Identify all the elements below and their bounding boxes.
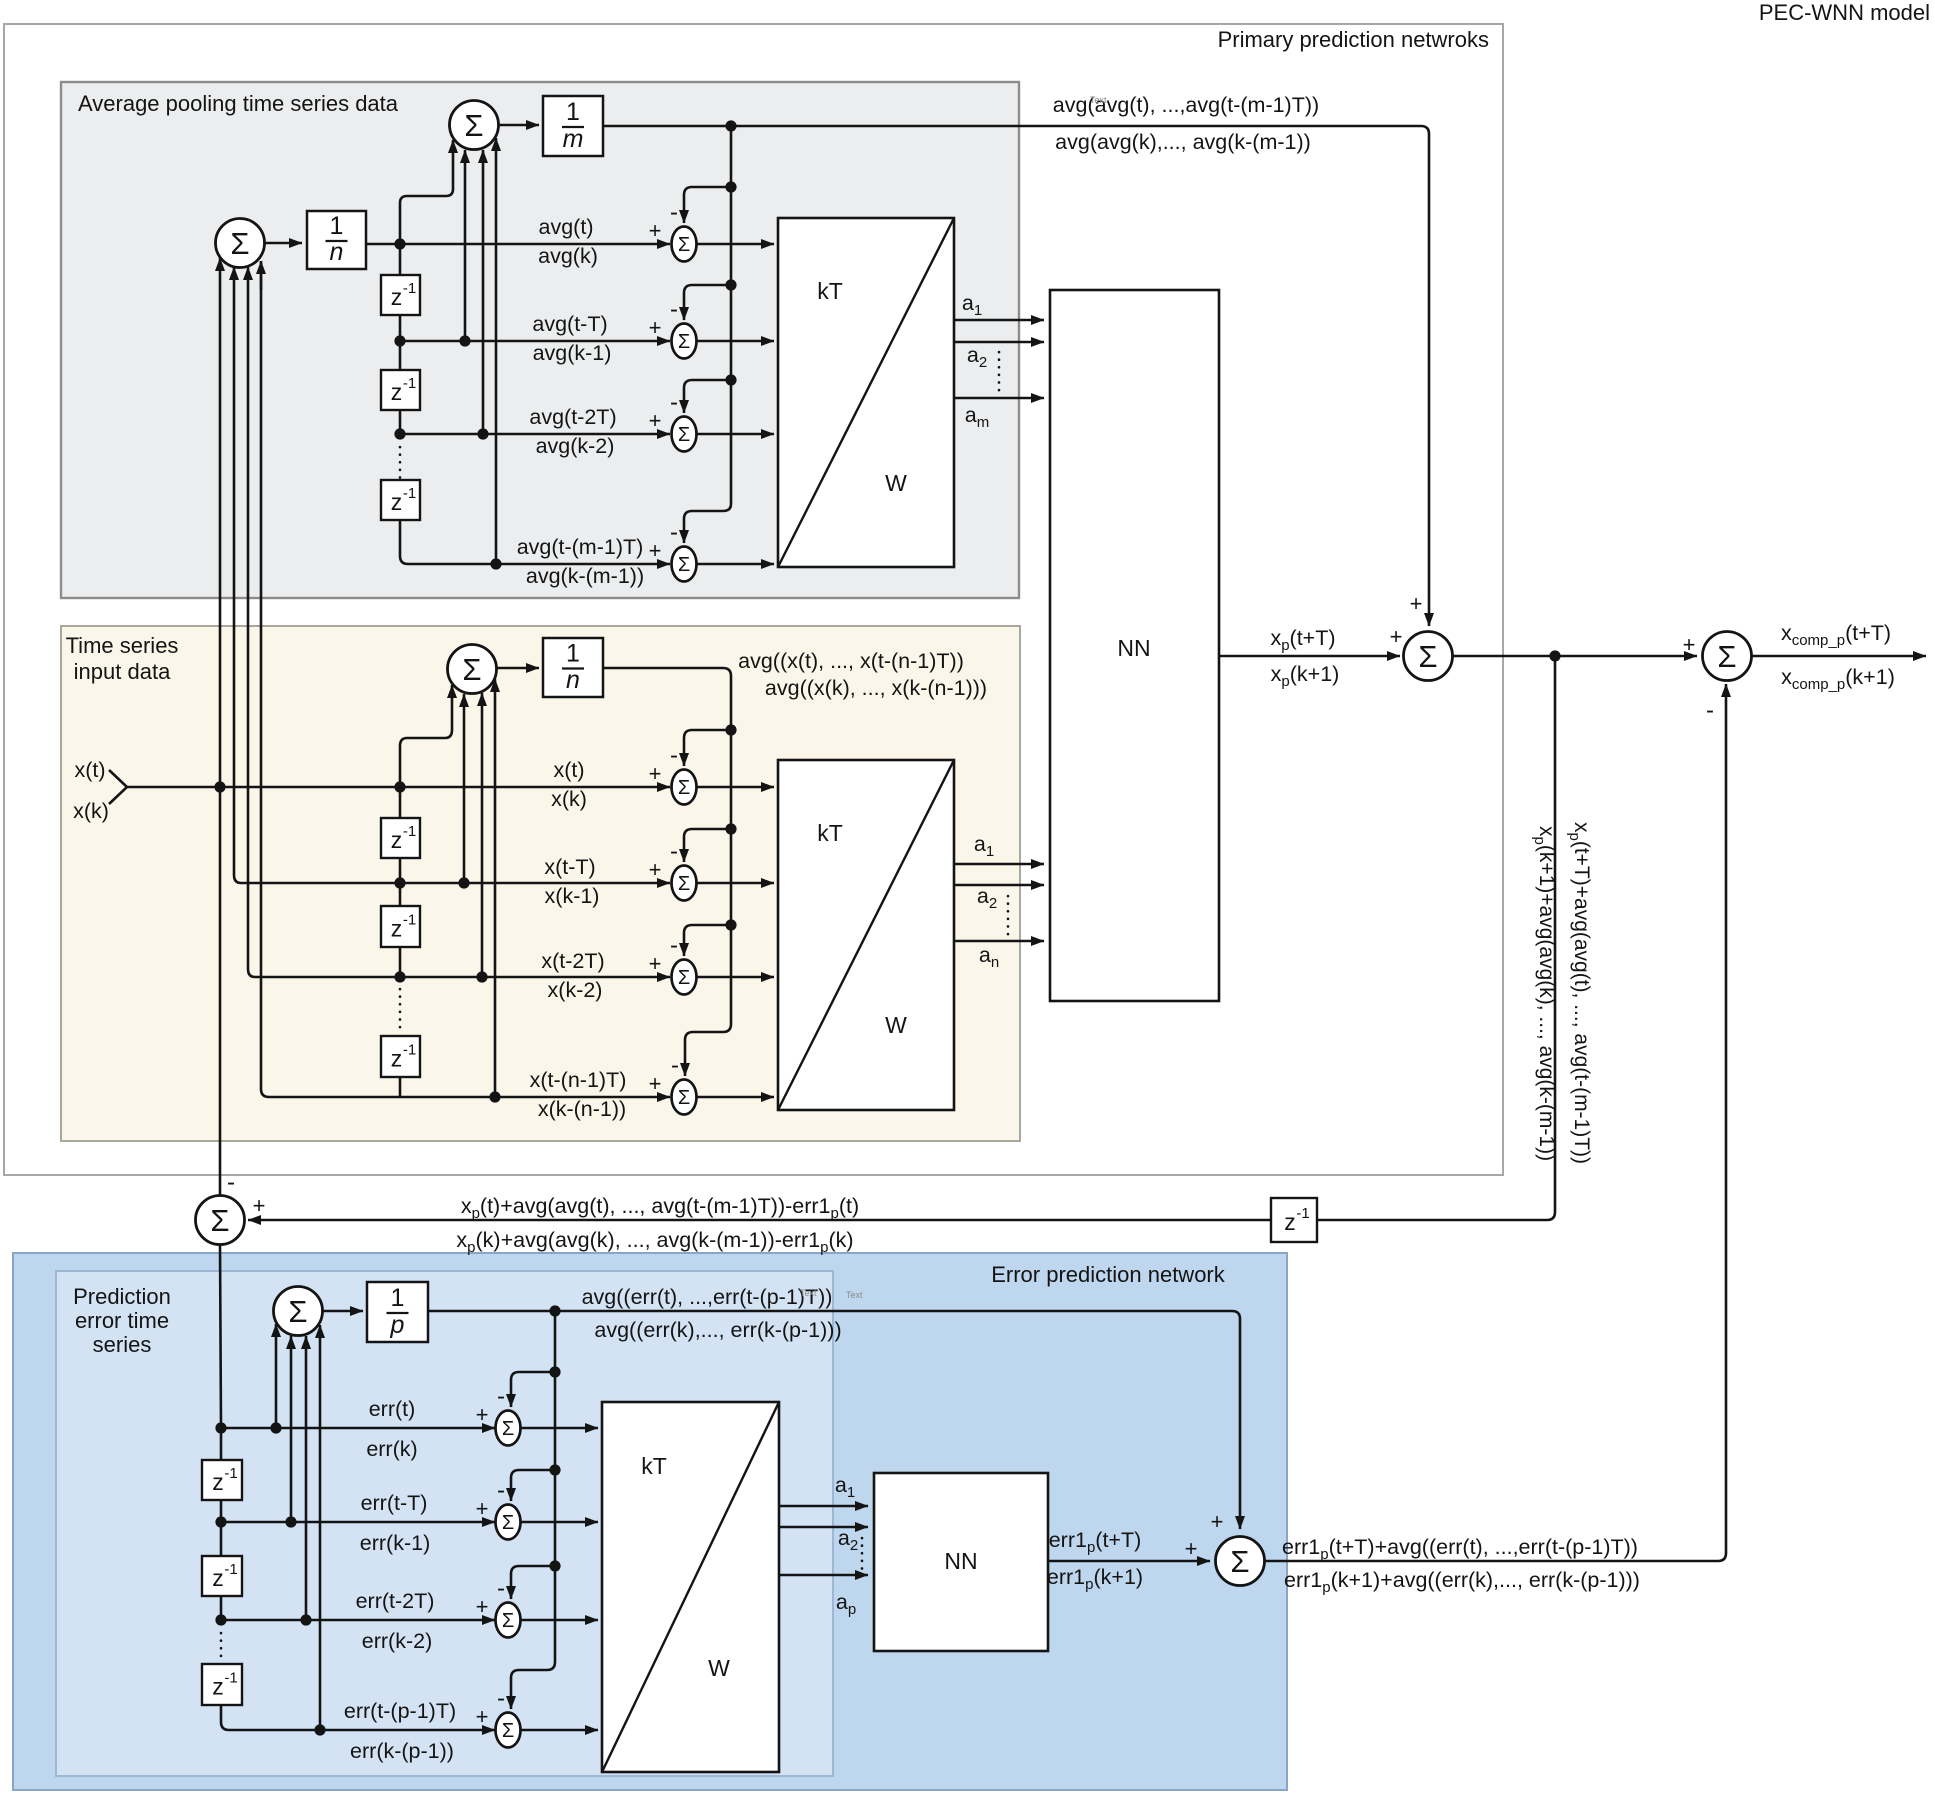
svg-text:avg(k): avg(k) [538,244,598,268]
wire: z-chain E seg1 [220,1428,223,1460]
svg-text:-: - [670,389,678,416]
svg-text:x(t): x(t) [74,758,105,782]
svg-text:-1: -1 [224,1561,237,1578]
label x(k-2) [548,978,603,1002]
label ap (E) [836,1590,856,1618]
junction dot A row2 tap [459,335,470,346]
block 1/n (M) [543,638,603,697]
junction dot on avg(avg) line [725,120,736,131]
sum node SE-big (err summer) [274,1287,323,1336]
label x(t-2T) [541,949,604,973]
plus sign E row4 [476,1704,489,1729]
label xp(t)+avg... [461,1194,859,1222]
wire: subtract-feed vertical A [684,126,731,543]
svg-text:xp(t+T): xp(t+T) [1270,626,1335,654]
svg-text:Average pooling time series da: Average pooling time series data [78,91,399,116]
svg-text:series: series [93,1332,152,1357]
block NN (error) [874,1473,1048,1651]
wire: z-chain E to row4 [221,1705,495,1730]
junction dot E row4 tap [314,1724,325,1735]
minus sign M row4 [671,1052,679,1079]
sum node SA-top (avg of avg) [450,101,499,150]
junction dot M row3 chain [394,971,405,982]
junction dot E hook2 [549,1464,560,1475]
wire: z-chain A to row4 [400,519,408,564]
label avg(k-2) [536,434,615,458]
wire: z-chain A seg4 [399,409,402,434]
wire E output ap [779,1574,868,1577]
wire: primary out to final summer [1453,655,1698,658]
label err(k-1) [360,1531,430,1555]
svg-text:Σ: Σ [678,234,690,256]
junction dot M hook3 [725,919,736,930]
junction dot M row2 chain [394,877,405,888]
svg-text:Σ: Σ [502,1418,514,1440]
svg-text:xp(k+1): xp(k+1) [1271,662,1340,690]
wire M sub2 to kT/W [697,882,775,885]
wire: SE-big to 1/p [323,1310,364,1313]
label err1p(k+1) [1047,1565,1143,1593]
wire: tap A row4 to SA-top [495,138,498,564]
sum node SA-left (avg pooling input summer) [216,219,265,268]
minus sign A row2 [670,296,678,323]
label avg(k-1) [533,341,612,365]
wire: tap A row3 to SA-top [482,150,485,434]
wire E output a1 [779,1505,868,1508]
svg-text:x(k): x(k) [73,799,109,823]
wire M output an [954,940,1044,943]
label am (A) [965,403,989,431]
minus sign E row4 [497,1685,505,1712]
wire row E1: err(t) [221,1427,495,1430]
wire row A2: avg(t-T) [400,340,670,343]
svg-text:-1: -1 [1296,1205,1309,1222]
block kT/W E (wavelet layer) [602,1402,779,1772]
svg-text:avg((err(k),..., err(k-(p-1))): avg((err(k),..., err(k-(p-1))) [594,1318,841,1342]
plus sign final summer [1683,632,1696,657]
svg-text:Σ: Σ [678,554,690,576]
label xp(t+T) [1270,626,1335,654]
wire: SA-left to 1/n [265,242,303,245]
minus sign E row2 [497,1477,505,1504]
wire: hook E row3 [511,1566,555,1599]
sum node E sub2 [496,1505,521,1540]
sum node M sub3 [672,960,697,995]
label: Error prediction network [991,1262,1226,1287]
delay z-1 feedback [1271,1198,1317,1242]
svg-text:z: z [391,827,403,853]
wire E sub2 to kT/W [521,1521,599,1524]
label err(k-(p-1)) [350,1739,454,1763]
minus sign E row3 [497,1575,505,1602]
wire: hook A row1 [684,187,731,223]
label avg(t) [539,215,594,239]
plus sign M row1 [649,761,662,786]
svg-text:avg(t-(m-1)T): avg(t-(m-1)T) [517,535,644,559]
input fork x(t)/x(k) [109,770,127,804]
svg-text:z: z [391,284,403,310]
minus sign subtractor [227,1169,235,1196]
label err1p(t+T) [1049,1528,1142,1556]
sum node subtractor (error former) [196,1196,245,1245]
svg-text:xp(k)+avg(avg(k), ..., avg(k-(: xp(k)+avg(avg(k), ..., avg(k-(m-1))-err1… [456,1228,853,1256]
wire: z-chain E dotted [220,1633,223,1661]
svg-text:Text: Text [800,1288,817,1298]
wire A sub3 to kT/W [697,433,775,436]
label avg((err(k)...) [594,1318,841,1342]
svg-text:+: + [649,538,662,563]
junction dot M hook1 [725,724,736,735]
label err1p(t+T)+avg... [1282,1535,1638,1563]
plus sign E row1 [476,1402,489,1427]
svg-text:avg(k-(m-1)): avg(k-(m-1)) [526,564,644,588]
svg-text:-1: -1 [224,1465,237,1482]
wire row A4: avg(t-(m-1)T) [408,563,670,566]
sum node E sub4 [496,1713,521,1748]
artifact text 2 [846,1290,863,1300]
sum node A sub4 [672,547,697,582]
svg-text:-1: -1 [403,823,416,840]
svg-text:x(k): x(k) [551,787,587,811]
delay z-1 A3 [381,480,420,520]
svg-text:+: + [1683,632,1696,657]
svg-text:-: - [1706,697,1714,724]
svg-text:Prediction: Prediction [73,1284,171,1309]
wire: avg(err) line to error out summer [428,1311,1240,1529]
plus sign into out summer (left) [1390,624,1403,649]
svg-text:1: 1 [391,1284,405,1312]
label x(t) [74,758,105,782]
minus sign M row2 [670,838,678,865]
wire: z-chain A dotted [399,447,402,478]
svg-text:avg((x(t), ..., x(t-(n-1)T)): avg((x(t), ..., x(t-(n-1)T)) [738,649,964,673]
svg-text:x(k-(n-1)): x(k-(n-1)) [538,1097,626,1121]
wire E output a2 [779,1526,868,1529]
label err(k) [366,1437,417,1461]
sum node A sub3 [672,417,697,452]
svg-text:xp(k+1)+avg(avg(k), ..., avg(k: xp(k+1)+avg(avg(k), ..., avg(k-(m-1)) [1531,826,1558,1161]
minus sign A row3 [670,389,678,416]
label avg((x(k)...) [765,676,987,700]
wire row E3: err(t-2T) [221,1619,495,1622]
wire row M1: x(t) [127,786,670,789]
plus sign M row2 [649,857,662,882]
label x(k) [73,799,109,823]
wire: tap M row3 to SM-big [481,693,484,977]
svg-text:avg(t-2T): avg(t-2T) [529,405,616,429]
svg-text:+: + [649,315,662,340]
svg-text:Time series: Time series [66,633,179,658]
label xp(k)+avg... [456,1228,853,1256]
wire E sub1 to kT/W [521,1427,599,1430]
svg-text:err1p(k+1)+avg((err(k),..., er: err1p(k+1)+avg((err(k),..., err(k-(p-1))… [1284,1568,1640,1596]
delay z-1 M3 [381,1036,420,1077]
label an (M) [979,943,999,971]
dotted separator E outputs [861,1538,864,1570]
wire: tap E row2 [290,1336,293,1522]
wire: z-chain A seg3 [399,341,402,370]
wire: z-chain E seg4 [220,1596,223,1620]
svg-text:Σ: Σ [1230,1544,1249,1579]
plus sign E row3 [476,1594,489,1619]
svg-text:z: z [391,379,403,405]
plus sign subtractor [253,1193,266,1218]
wire M sub1 to kT/W [697,786,775,789]
svg-text:xp(t+T)+avg(avg(t), ..., avg(t: xp(t+T)+avg(avg(t), ..., avg(t-(m-1)T)) [1566,822,1593,1164]
label a2 (M) [977,884,997,912]
wire: avg(x) line down hooks [603,668,731,1076]
svg-text:NN: NN [1117,635,1150,661]
wire: subtractor output down [220,1245,221,1429]
svg-text:z: z [391,916,403,942]
svg-text:+: + [476,1594,489,1619]
svg-text:-: - [497,1685,505,1712]
svg-text:Σ: Σ [678,1087,690,1109]
svg-text:err(k-2): err(k-2) [362,1629,432,1653]
minus sign M row3 [670,932,678,959]
sum node E sub1 [496,1411,521,1446]
minus sign M row1 [670,742,678,769]
label: Prediction error time series [73,1284,171,1357]
svg-text:Text: Text [846,1290,863,1300]
svg-text:z: z [1284,1209,1296,1235]
label err(t-(p-1)T) [344,1699,456,1723]
svg-text:x(k-1): x(k-1) [545,884,600,908]
svg-text:+: + [649,951,662,976]
junction dot E row2 chain [215,1516,226,1527]
svg-text:avg((x(k), ..., x(k-(n-1))): avg((x(k), ..., x(k-(n-1))) [765,676,987,700]
svg-text:avg((err(t), ...,err(t-(p-1)T): avg((err(t), ...,err(t-(p-1)T)) [582,1285,833,1309]
svg-text:NN: NN [944,1548,977,1574]
label avg(t-(m-1)T) [517,535,644,559]
svg-text:avg(k-2): avg(k-2) [536,434,615,458]
label avg(k) [538,244,598,268]
sum node A sub2 [672,324,697,359]
svg-text:-1: -1 [224,1670,237,1687]
svg-text:err(t-T): err(t-T) [361,1491,428,1515]
wire M output a1 [954,863,1044,866]
plus sign A row2 [649,315,662,340]
svg-text:+: + [476,1704,489,1729]
svg-text:-: - [670,199,678,226]
wire A output a1 [954,319,1044,322]
svg-text:-: - [670,296,678,323]
junction dot A row3 [394,428,405,439]
svg-text:-: - [497,1477,505,1504]
svg-text:err1p(t+T)+avg((err(t), ...,er: err1p(t+T)+avg((err(t), ...,err(t-(p-1)T… [1282,1535,1638,1563]
svg-text:avg(k-1): avg(k-1) [533,341,612,365]
sum node A sub1 [672,227,697,262]
box: Error prediction network (blue) [13,1253,1287,1790]
svg-text:p: p [390,1311,405,1339]
block 1/m [543,96,603,156]
svg-text:1: 1 [566,640,580,668]
label err(t-T) [361,1491,428,1515]
svg-text:z: z [391,1046,403,1072]
svg-text:Σ: Σ [502,1720,514,1742]
junction dot A row4 tap [490,558,501,569]
wire: tap E row1 [275,1324,278,1428]
svg-text:Σ: Σ [502,1610,514,1632]
plus sign error out (left) [1185,1536,1198,1561]
wire row A3: avg(t-2T) [400,433,670,436]
svg-text:z: z [212,1674,224,1700]
label a1 (E) [835,1473,855,1501]
label a2 (A) [967,343,987,371]
svg-text:err1p(t+T): err1p(t+T) [1049,1528,1142,1556]
junction dot M row2 tap [458,877,469,888]
block kT/W M (wavelet layer) [778,760,954,1110]
wire: z-chain M seg4 [399,947,402,977]
wire: row M3 from corner [255,976,670,979]
plus sign A row1 [649,218,662,243]
svg-text:Σ: Σ [462,652,481,687]
minus sign A row4 [670,519,678,546]
label xcomp_p(t+T) [1781,621,1891,649]
svg-text:Σ: Σ [678,777,690,799]
junction dot E hook3 [549,1560,560,1571]
rotated label xp(t+T)+avg... [1566,822,1593,1164]
svg-text:x(t-(n-1)T): x(t-(n-1)T) [530,1068,627,1092]
block 1/p [367,1282,428,1342]
delay z-1 E3 [202,1664,242,1705]
svg-text:Σ: Σ [502,1512,514,1534]
minus sign A row1 [670,199,678,226]
minus sign final summer [1706,697,1714,724]
svg-text:+: + [649,761,662,786]
svg-text:Σ: Σ [1717,639,1736,674]
sum node M sub4 [672,1080,697,1115]
label a1 (M) [974,832,994,860]
svg-text:Σ: Σ [678,331,690,353]
label x(k-1) [545,884,600,908]
wire: error out to final summer [1265,684,1727,1561]
svg-text:err1p(k+1): err1p(k+1) [1047,1565,1143,1593]
svg-text:kT: kT [817,278,843,304]
plus sign M row4 [649,1071,662,1096]
dotted separator A outputs [998,352,1001,392]
wire A sub2 to kT/W [697,340,775,343]
junction dot A row2 [394,335,405,346]
plus sign into out summer (top) [1410,591,1423,616]
svg-text:+: + [649,408,662,433]
wire: SA-top to 1/m [499,124,540,127]
svg-text:-: - [671,1052,679,1079]
wire M sub4 to kT/W [697,1096,775,1099]
label: Time series input data [66,633,179,684]
svg-text:+: + [1390,624,1403,649]
svg-text:-: - [670,742,678,769]
svg-text:W: W [885,470,907,496]
label avg(avg(k)...) [1055,130,1311,154]
svg-text:1: 1 [330,212,344,240]
svg-text:Σ: Σ [678,424,690,446]
wire: tap E row4 [319,1325,322,1730]
wire: hook A row3 [684,380,731,413]
svg-text:err(t): err(t) [369,1397,416,1421]
svg-text:m: m [563,125,584,153]
label x(t) row [553,758,584,782]
svg-text:kT: kT [817,820,843,846]
wire: hook M row3 [684,925,731,956]
svg-text:W: W [885,1012,907,1038]
svg-text:-1: -1 [403,1042,416,1059]
label err1p(k+1)+avg... [1284,1568,1640,1596]
label x(k) row [551,787,587,811]
svg-text:PEC-WNN model: PEC-WNN model [1759,0,1930,25]
wire: z-chain M to row4 [399,1077,402,1097]
svg-text:1: 1 [566,98,580,126]
svg-text:-: - [497,1383,505,1410]
svg-text:Σ: Σ [1418,639,1437,674]
delay z-1 A2 [381,370,420,410]
wire A sub4 to kT/W [697,563,775,566]
wire: tap A row1 to SA-top [400,140,453,244]
svg-text:-: - [227,1169,235,1196]
wire: x(t-2T) up to SA-left [248,267,255,977]
svg-text:x(t): x(t) [553,758,584,782]
svg-text:-: - [670,519,678,546]
delay z-1 E1 [202,1460,242,1500]
label: PEC-WNN model [1759,0,1930,25]
svg-text:Error prediction network: Error prediction network [991,1262,1226,1287]
wire: avg(avg) line to output summer [603,126,1429,626]
svg-text:Σ: Σ [288,1294,307,1329]
label avg(t-2T) [529,405,616,429]
wire: x(t) down to subtractor [219,787,222,1196]
wire: z-chain M seg3 [399,883,402,906]
svg-text:Text: Text [1090,95,1107,105]
svg-text:avg(t-T): avg(t-T) [532,312,607,336]
svg-text:x(t-2T): x(t-2T) [541,949,604,973]
wire row E2: err(t-T) [221,1521,495,1524]
wire: z-chain M seg1 [399,787,402,818]
wire E sub4 to kT/W [521,1729,599,1732]
svg-text:error time: error time [75,1308,169,1333]
label err(t-2T) [356,1589,435,1613]
svg-text:+: + [1410,591,1423,616]
wire A output am [954,397,1044,400]
delay z-1 A1 [381,275,420,315]
junction dot A hook1 [725,181,736,192]
sum node primary output [1404,632,1453,681]
wire: tap A row2 to SA-top [464,150,467,341]
wire: z-chain A seg1 [399,244,402,275]
label avg((err(t)...) [582,1285,833,1309]
label x(t-T) [544,855,595,879]
label xcomp_p(k+1) [1781,665,1895,693]
svg-text:err(t-2T): err(t-2T) [356,1589,435,1613]
label x(k-(n-1)) [538,1097,626,1121]
junction dot A row1 [394,238,405,249]
box: Time series input data (cream) [61,626,1020,1141]
wire: feedback to subtractor [248,1219,1271,1222]
wire: x(t) down to SA-left [219,258,222,787]
svg-text:-1: -1 [403,912,416,929]
wire: x(t-T) up to SA-left [234,267,241,883]
svg-text:z: z [212,1565,224,1591]
wire: feedback down from primary out [1317,656,1555,1220]
minus sign E row1 [497,1383,505,1410]
label a1 (A) [962,291,982,319]
svg-text:-: - [497,1575,505,1602]
wire M output a2 [954,884,1044,887]
svg-text:-1: -1 [403,280,416,297]
delay z-1 M2 [381,906,420,947]
svg-text:Primary prediction netwroks: Primary prediction netwroks [1218,27,1489,52]
wire A output a2 [954,341,1044,344]
wire: z-chain M seg2 [399,858,402,883]
